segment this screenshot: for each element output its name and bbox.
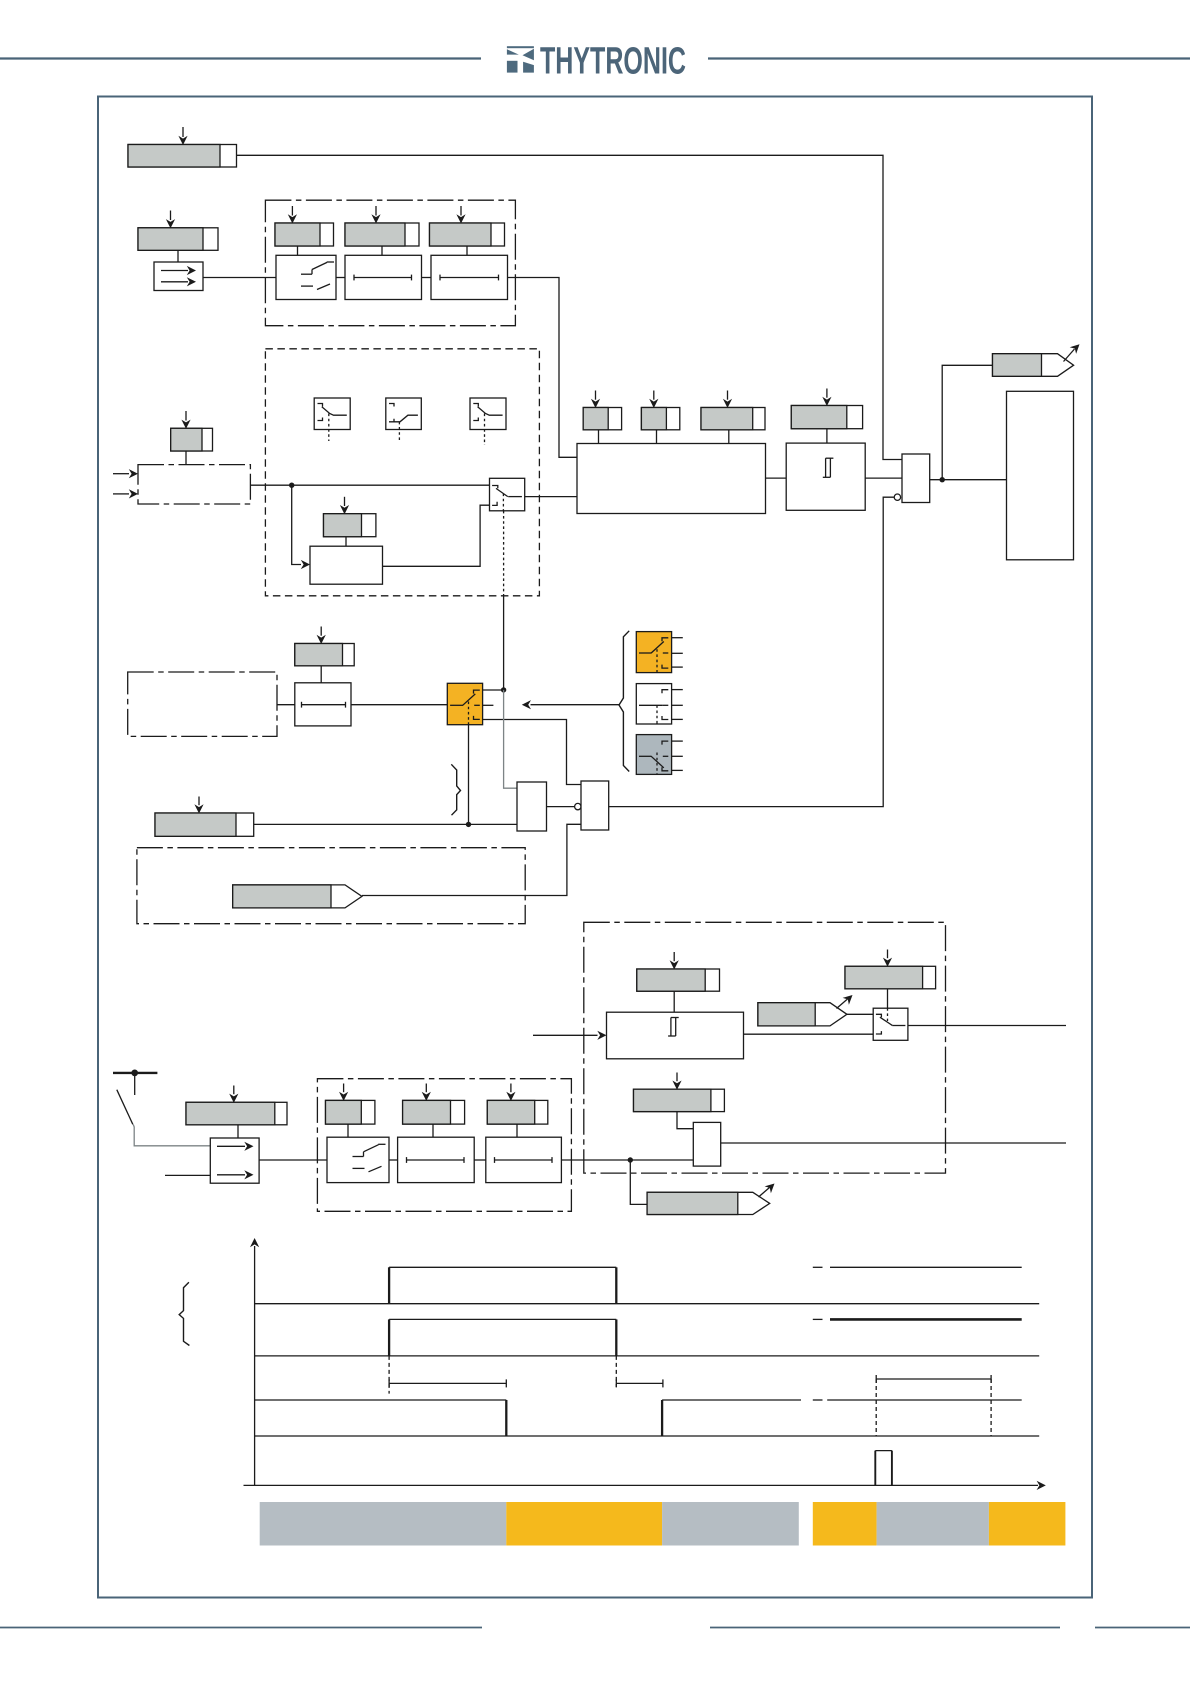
arrow into P15: [883, 950, 892, 967]
wire K4 to K5: [389, 1159, 398, 1161]
waveform row1 right level: [830, 1266, 1022, 1268]
wire P15 to SW2: [887, 989, 889, 1008]
arrow into P9: [649, 391, 658, 409]
wire P14 to H1: [673, 991, 675, 1012]
parameter box P4: [345, 223, 419, 246]
wire P1 to AND gate U1 top input: [237, 155, 903, 459]
dashed group box G2 (characteristic selection): [265, 349, 539, 596]
arrow into P19: [422, 1084, 431, 1101]
wire J5 down to PL4: [630, 1160, 647, 1204]
block K4 (contact logic): [327, 1137, 389, 1182]
block K2 (timer): [345, 255, 422, 299]
header rule right: [708, 57, 1190, 59]
wire OSW bottom contact to OR gate G2 top input: [483, 720, 581, 785]
control line SW1 dashed down: [503, 511, 505, 596]
parameter box P18: [326, 1100, 375, 1124]
block B1 (input filter, two arrows): [154, 262, 203, 291]
node J4: [940, 477, 945, 482]
footer rule segment 3: [1095, 1627, 1190, 1629]
dash-dot group box G1 (start timers): [265, 200, 515, 326]
parameter box P1 (top enable): [128, 145, 237, 168]
arrow from option group to OSW: [522, 700, 619, 709]
parameter box P11: [791, 406, 862, 429]
wire B1 to block K1: [203, 277, 276, 279]
measure line m3: [876, 1375, 991, 1383]
arrow into P11: [822, 389, 831, 407]
timing axis vertical: [250, 1238, 259, 1485]
wire P8 to M1: [598, 430, 600, 444]
wire J2 down to gate G1 top input: [504, 690, 517, 788]
signal flag PL4 (pencil label): [647, 1192, 770, 1214]
inverted input bubble of U1: [894, 494, 900, 500]
switch block SW1 (characteristic switch): [490, 478, 525, 511]
characteristic icon C1: [314, 398, 350, 441]
arrow into P2: [166, 211, 175, 229]
option block O3 (gray, position 3): [636, 735, 683, 775]
stub OSW middle contact: [483, 704, 494, 706]
arrow into P18: [339, 1084, 348, 1101]
wire V1 output long right: [721, 1142, 1066, 1144]
block V1 (validation): [693, 1122, 720, 1166]
waveform row2 right level bold: [830, 1318, 1022, 1321]
arrow into P14: [670, 952, 679, 970]
footer rule segment 1: [0, 1627, 482, 1629]
parameter box P15: [845, 966, 936, 989]
marker dashed v4: [990, 1379, 992, 1436]
waveform row3 baseline: [255, 1435, 1040, 1437]
option block O2 (white, position 2): [636, 684, 683, 724]
parameter box P17: [186, 1102, 287, 1125]
dash-dot group box G3 (2nd harmonic restraint): [584, 922, 946, 1173]
state bar segment yellow3: [989, 1502, 1066, 1546]
block CMP (level comparator with hysteresis): [786, 443, 865, 510]
waveform row1 baseline: [255, 1303, 1040, 1305]
wire P4 to K2: [381, 246, 383, 255]
node J5: [628, 1157, 633, 1162]
parameter box P14: [637, 969, 720, 991]
arrow into P17: [229, 1086, 238, 1103]
dash-dot box D3 (blocking input): [128, 672, 277, 736]
waveform row2 right dash: [813, 1318, 823, 1320]
waveform row4 pulse: [875, 1451, 892, 1486]
wire P5 to K3: [466, 246, 468, 255]
wire P7 to R1: [345, 537, 347, 547]
signal flag PL2 (pencil label): [233, 885, 362, 908]
arrow out of PL3: [837, 995, 853, 1009]
measure line m1: [389, 1379, 506, 1387]
node J3: [466, 822, 471, 827]
waveform row3 right dash: [813, 1399, 823, 1401]
parameter box P9: [641, 408, 679, 430]
tall block T1 (output logic): [1007, 391, 1074, 560]
logo THYTRONIC icon: [507, 46, 534, 72]
wire PL3 to SW2 top input: [847, 1013, 873, 1015]
state bar segment yellow2: [813, 1502, 877, 1546]
wire H1 to SW2 lower input: [744, 1033, 874, 1035]
wire J1 down to ramp block R1: [292, 485, 301, 564]
arrow out of PL4: [759, 1184, 775, 1198]
wire U1 output with node J4: [930, 479, 1007, 481]
state bar segment gray2: [662, 1502, 799, 1546]
waveform row1 pulse: [389, 1267, 616, 1303]
switch block SW2 (harmonic restraint switch): [873, 1008, 908, 1040]
wire D3 to T2: [277, 704, 295, 706]
wire breaker to B2: [133, 1124, 210, 1146]
wire P16 to V1: [677, 1112, 693, 1129]
block K1 (contact logic): [276, 255, 336, 299]
parameter box P19: [403, 1100, 465, 1124]
small brace over control line: [451, 764, 460, 815]
wire P9 to M1: [656, 430, 658, 444]
input wire into H1: [533, 1031, 607, 1040]
waveform row3 signal: [255, 1400, 507, 1436]
wire P20 to K6: [516, 1124, 518, 1137]
wire OSW top contact to node J2: [483, 689, 504, 691]
wire P11 to CMP: [826, 429, 828, 443]
option block O1 (yellow, position 1): [636, 632, 683, 673]
input dash-dot box D1: [138, 465, 250, 504]
state bar segment gray3: [877, 1502, 989, 1546]
breaker blade: [117, 1090, 133, 1125]
block K5 (timer): [398, 1137, 475, 1182]
parameter box P12: [295, 644, 354, 666]
footer rule segment 2: [710, 1627, 1060, 1629]
breaker node bar: [113, 1072, 157, 1074]
parameter box P2 (input select): [138, 228, 218, 251]
gate G1 (AND): [517, 782, 547, 831]
waveform row3 rise2: [662, 1400, 801, 1436]
wire P6 to input box D1: [185, 451, 187, 465]
wire P18 to K4: [347, 1124, 349, 1137]
switch block OSW (blocking mode switch, selected): [447, 683, 482, 724]
waveform row2 pulse: [389, 1319, 616, 1356]
gate G2 (OR): [581, 781, 609, 830]
characteristic icon C3: [470, 398, 506, 445]
wire SW1 output to M1: [525, 496, 577, 498]
parameter box P3: [275, 223, 334, 246]
timing axis horizontal: [244, 1481, 1046, 1490]
wire P10 to M1: [728, 430, 730, 444]
arrow into P6: [181, 411, 190, 429]
block R1 (ramp): [310, 546, 383, 584]
block H1 (harmonic comparator): [607, 1012, 744, 1059]
arrow into P5: [456, 206, 465, 224]
wire R1 to SW1 lower input: [383, 505, 490, 566]
AND gate U1: [902, 454, 930, 503]
block K6 (timer): [486, 1137, 562, 1182]
parameter box P20: [487, 1100, 548, 1124]
marker dashed v3: [875, 1379, 877, 1436]
characteristic icon C2: [386, 398, 422, 441]
wire P19 to K5: [432, 1124, 434, 1137]
parameter box P7: [324, 514, 376, 537]
arrow into P3: [288, 206, 297, 224]
breaker stub: [134, 1073, 136, 1095]
wire P13 to gate G1 lower input: [254, 823, 517, 825]
parameter box P8: [583, 408, 621, 430]
marker dashed v1: [388, 1356, 390, 1394]
wire group output into V1: [561, 1159, 693, 1161]
parameter box P13: [155, 813, 254, 836]
wire G1 output to G2 bubble: [547, 806, 575, 808]
arrow into P10: [723, 391, 732, 409]
wire K3 to measurement block M1: [508, 278, 578, 458]
inverted input bubble of G2: [575, 803, 581, 809]
wire P12 to T2: [320, 666, 322, 683]
wire OR output up to U1 inverted input: [609, 497, 895, 806]
waveform row3 right level: [827, 1399, 1022, 1401]
timing brace: [179, 1282, 189, 1345]
parameter box P5: [430, 223, 505, 246]
input arrow b: [113, 489, 138, 498]
state bar segment yellow1: [506, 1502, 662, 1546]
wire M1 to CMP: [766, 477, 787, 479]
wire K5 to K6: [474, 1159, 486, 1161]
parameter box P10: [701, 408, 765, 430]
parameter box P16: [634, 1089, 725, 1111]
wire P3 to K1: [297, 246, 299, 255]
wire J4 up to output flag F1: [942, 365, 992, 479]
arrow into P20: [506, 1084, 515, 1101]
measure line m2: [616, 1379, 663, 1387]
brace for option group: [619, 631, 629, 772]
marker dashed v2: [615, 1356, 617, 1387]
dash-dot box D4 (blocked condition): [137, 848, 525, 924]
waveform row2 baseline: [255, 1355, 1040, 1357]
second input wire into B2: [165, 1174, 210, 1176]
node J1: [289, 483, 294, 488]
node J6: [131, 1070, 138, 1077]
arrow into P13: [194, 797, 203, 814]
dash-dot group box G4 (second stage timers): [317, 1079, 571, 1212]
arrow into P1: [178, 127, 187, 145]
parameter box P6: [171, 428, 213, 451]
block K3 (timer): [431, 255, 508, 299]
signal flag PL3 (pencil label): [758, 1003, 847, 1026]
arrow into P16: [672, 1073, 681, 1090]
wire K2 to K3: [422, 277, 432, 279]
control line OSW down to node J3: [468, 725, 470, 825]
block B2 (input filter, two arrows): [210, 1138, 259, 1183]
state bar segment gray1: [260, 1502, 507, 1546]
wire D1 to switch SW1 with junction: [250, 484, 489, 486]
arrow out of F1: [1064, 344, 1080, 361]
block M1 (measurement): [577, 444, 766, 514]
wire B2 to K4: [259, 1159, 327, 1161]
arrow into P8: [591, 391, 600, 409]
output flag F1 (pencil label): [993, 354, 1074, 377]
header rule left: [0, 57, 481, 59]
control line solid to node J2: [503, 596, 505, 690]
page frame box: [98, 97, 1092, 1598]
wire PL2 flag to G2 bottom input: [362, 824, 581, 895]
node J2: [501, 687, 506, 692]
wire P17 to B2: [237, 1125, 239, 1138]
svg-text:THYTRONIC: THYTRONIC: [540, 41, 686, 83]
wire SW2 output long right: [908, 1025, 1066, 1027]
waveform row1 right dash: [813, 1266, 823, 1268]
arrow into P4: [371, 206, 380, 224]
wire T2 to OSW: [351, 704, 447, 706]
arrow into P12: [317, 627, 326, 645]
wire P2 to block B1: [177, 250, 179, 262]
input arrow a: [113, 469, 138, 478]
wire K1 to K2: [336, 277, 345, 279]
arrow into P7: [340, 497, 349, 514]
block T2 (timer): [295, 683, 351, 726]
wire CMP to U1: [865, 477, 902, 479]
